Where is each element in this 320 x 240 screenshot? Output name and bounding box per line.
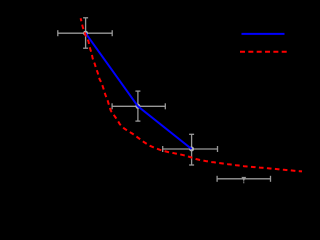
legend red dashed — [240, 51, 287, 53]
error bars P2 — [112, 91, 165, 121]
legend blue — [242, 33, 285, 35]
limit bar P4 — [217, 176, 270, 182]
error bars P1 — [58, 18, 112, 48]
red dashed curve — [81, 18, 302, 171]
down arrow marker P4 — [241, 177, 246, 182]
error bars P3 — [163, 134, 218, 165]
blue polyline — [86, 33, 192, 149]
markers P1 P2 P3 — [83, 31, 88, 36]
